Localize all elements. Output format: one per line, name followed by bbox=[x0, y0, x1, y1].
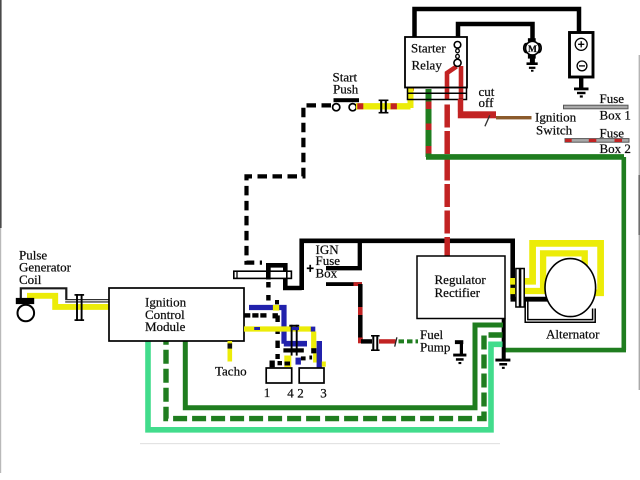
svg-text:Alternator: Alternator bbox=[546, 327, 600, 342]
svg-text:3: 3 bbox=[320, 386, 327, 401]
svg-text:off: off bbox=[479, 95, 495, 110]
svg-text:Fuse: Fuse bbox=[600, 91, 625, 106]
svg-text:Box 2: Box 2 bbox=[600, 141, 631, 156]
svg-text:Switch: Switch bbox=[536, 123, 573, 138]
svg-text:Push: Push bbox=[333, 82, 359, 97]
svg-text:Rectifier: Rectifier bbox=[435, 285, 481, 300]
svg-text:1: 1 bbox=[264, 385, 271, 400]
svg-text:Relay: Relay bbox=[412, 58, 443, 73]
svg-text:Pump: Pump bbox=[420, 340, 450, 355]
svg-text:2: 2 bbox=[297, 386, 304, 401]
svg-text:Box 1: Box 1 bbox=[600, 108, 631, 123]
svg-text:Coil: Coil bbox=[19, 272, 42, 287]
svg-text:M: M bbox=[528, 45, 537, 55]
svg-text:Box: Box bbox=[316, 265, 338, 280]
svg-text:Fuse: Fuse bbox=[600, 126, 625, 141]
svg-text:4: 4 bbox=[287, 386, 294, 401]
svg-text:Module: Module bbox=[145, 319, 186, 334]
svg-text:Tacho: Tacho bbox=[215, 364, 247, 379]
svg-text:Starter: Starter bbox=[411, 41, 446, 56]
